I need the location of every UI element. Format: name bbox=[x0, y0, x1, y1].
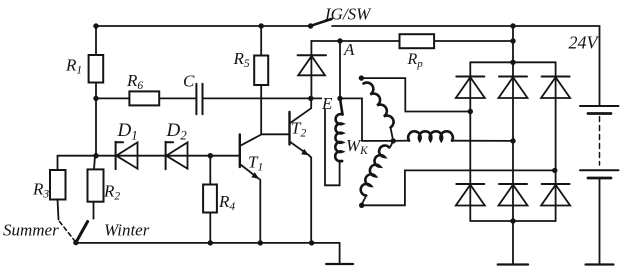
node Rp right bbox=[510, 38, 515, 43]
svg-text:T1: T1 bbox=[248, 153, 263, 174]
wire diode row bbox=[58, 155, 240, 157]
svg-text:R3: R3 bbox=[32, 180, 49, 201]
diode bridge upper 1 bbox=[456, 62, 485, 111]
wire bottom rail corner to ground bbox=[339, 243, 341, 264]
resistor R4 bbox=[203, 156, 217, 243]
svg-text:Rp: Rp bbox=[407, 51, 424, 70]
wire E row to WK bottom loop bbox=[311, 98, 340, 185]
svg-text:D1: D1 bbox=[117, 120, 138, 143]
svg-text:A: A bbox=[343, 40, 355, 59]
svg-text:R2: R2 bbox=[103, 182, 120, 203]
svg-text:Winter: Winter bbox=[104, 221, 150, 240]
node bridge plus top bbox=[510, 23, 515, 28]
node D row left bbox=[93, 153, 98, 158]
capacitor C bbox=[196, 84, 202, 114]
svg-text:T2: T2 bbox=[291, 119, 306, 140]
wire R1 down to diode row bbox=[95, 98, 97, 155]
node star point bbox=[391, 138, 396, 143]
svg-text:R4: R4 bbox=[218, 192, 235, 213]
resistor R5 bbox=[254, 26, 268, 135]
resistor R3 bbox=[50, 156, 66, 220]
node T1 emitter bottom bbox=[258, 240, 263, 245]
resistor Rp bbox=[340, 34, 513, 48]
wire bridge plus column bbox=[512, 26, 514, 62]
wire phase2 to bridge column2 bbox=[452, 140, 513, 142]
svg-text:WK: WK bbox=[346, 136, 369, 157]
wire node A to star point bbox=[340, 98, 393, 140]
wire bridge to ground bbox=[512, 221, 514, 264]
node bridge bottom bbox=[510, 218, 515, 223]
node phase2 bridge bbox=[510, 138, 515, 143]
svg-text:E: E bbox=[321, 94, 333, 113]
inductor stator phase 1 bbox=[364, 83, 394, 128]
node E bbox=[308, 96, 313, 101]
battery 24V bbox=[580, 26, 619, 264]
wire top rail right of switch bbox=[332, 25, 600, 27]
wire phase3 terminal to bridge column3 bbox=[362, 170, 555, 205]
node bridge top rail bbox=[510, 60, 515, 65]
diode bridge lower 3 bbox=[541, 170, 570, 221]
svg-text:24V: 24V bbox=[569, 33, 600, 53]
svg-text:C: C bbox=[183, 72, 195, 91]
ground right (battery) bbox=[586, 263, 614, 265]
node phase1 terminal wire bbox=[361, 78, 470, 111]
transistor T1 bbox=[240, 135, 261, 243]
transistor T2 bbox=[290, 98, 312, 243]
resistor R6 bbox=[129, 91, 159, 105]
node R1 bottom bbox=[93, 96, 98, 101]
node D row right bbox=[208, 153, 213, 158]
wire base rail y=98.4 (R6/C row) bbox=[96, 97, 196, 99]
node switch pivot bbox=[308, 23, 313, 28]
ground middle bbox=[498, 263, 528, 265]
wire C to node E row bbox=[203, 97, 311, 99]
diode bridge upper 3 bbox=[541, 62, 570, 170]
switch Winter blade bbox=[76, 222, 88, 243]
diode flyback (E to A) bbox=[298, 41, 326, 98]
inductor stator phase 2 bbox=[408, 131, 453, 140]
wire phase1 coil to star bbox=[391, 128, 394, 141]
diode D2 (zener, pointing left) bbox=[166, 142, 188, 170]
diode bridge upper 2 bbox=[499, 62, 528, 141]
wire bridge top rail bbox=[470, 61, 555, 63]
diode D1 (zener, pointing left) bbox=[116, 142, 138, 170]
svg-text:R6: R6 bbox=[126, 71, 143, 92]
label E with halo bbox=[322, 92, 335, 110]
node switch bottom pivot bbox=[73, 240, 78, 245]
node A-WK junction bbox=[337, 96, 342, 101]
node phase3 terminal bbox=[359, 203, 364, 208]
diode bridge lower 2 bbox=[499, 141, 528, 221]
resistor R2 bbox=[88, 156, 104, 219]
wire star to phase2 coil bbox=[393, 140, 409, 142]
wire bridge bottom rail bbox=[470, 220, 555, 222]
svg-text:IG/SW: IG/SW bbox=[324, 5, 372, 24]
wire node A down to E row bbox=[339, 41, 341, 98]
wire diode top to node A bbox=[311, 40, 340, 42]
node R5 top bbox=[259, 23, 264, 28]
node phase1 bridge bbox=[468, 109, 473, 114]
node phase3 bridge bbox=[552, 168, 557, 173]
svg-text:R1: R1 bbox=[65, 56, 82, 77]
wire star to phase3 coil bbox=[391, 141, 394, 147]
resistor R1 bbox=[89, 26, 104, 98]
wire top rail left of switch bbox=[96, 25, 311, 27]
node phase1 terminal bbox=[359, 75, 364, 80]
switch Summer dashed position bbox=[60, 222, 75, 241]
wire T1 collector to T2 base bbox=[261, 133, 289, 135]
node A bbox=[337, 38, 342, 43]
svg-text:R5: R5 bbox=[233, 49, 250, 70]
node R4 bottom bbox=[208, 240, 213, 245]
inductor stator phase 3 bbox=[361, 146, 390, 196]
wire bottom rail bbox=[76, 242, 340, 244]
diode bridge lower 1 bbox=[456, 112, 485, 222]
switch IG/SW blade bbox=[311, 19, 332, 26]
svg-text:D2: D2 bbox=[166, 120, 188, 143]
wire phase3 coil to terminal bbox=[362, 196, 367, 205]
node T2 emitter bottom bbox=[309, 240, 314, 245]
inductor WK field winding bbox=[335, 98, 342, 161]
ground left bbox=[326, 263, 353, 265]
svg-text:Summer: Summer bbox=[3, 221, 59, 240]
node R1 top bbox=[93, 23, 98, 28]
